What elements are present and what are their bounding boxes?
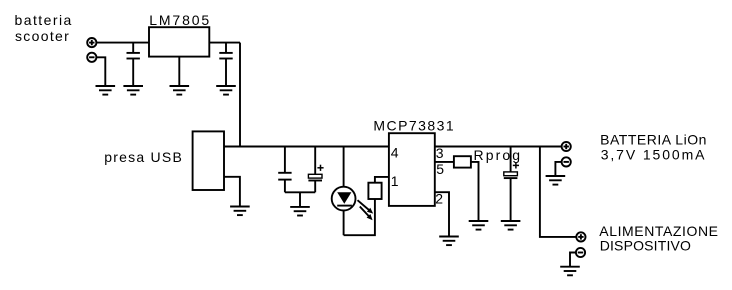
capacitor C4 electrolytic <box>308 147 323 193</box>
capacitor C3 <box>278 147 291 193</box>
wire MCP pin3 VBAT rail <box>435 146 562 148</box>
wire LED cathode to R1 <box>344 199 375 235</box>
wire caps to ground stem <box>299 192 301 207</box>
capacitor C1 input <box>127 43 140 86</box>
svg-text:presa USB: presa USB <box>104 149 182 165</box>
ground under Rprog <box>469 221 489 230</box>
ground under C2 <box>216 86 236 95</box>
ground under C5 <box>501 221 521 230</box>
wire batteria- to ground <box>96 57 105 86</box>
svg-text:MCP73831: MCP73831 <box>373 118 454 134</box>
svg-text:batteria: batteria <box>15 12 72 28</box>
svg-text:1: 1 <box>391 173 399 189</box>
svg-text:DISPOSITIVO: DISPOSITIVO <box>600 237 691 253</box>
terminal - ALIMENTAZIONE <box>576 248 585 257</box>
wire Rprog to ground <box>471 162 479 221</box>
LED emission arrow 1 <box>358 200 374 213</box>
svg-text:scooter: scooter <box>15 28 69 44</box>
svg-text:3,7V 1500mA: 3,7V 1500mA <box>601 146 705 162</box>
svg-text:BATTERIA LiOn: BATTERIA LiOn <box>600 132 706 148</box>
connector J1 presa USB body <box>193 131 224 190</box>
wire MCP pin5 to Rprog <box>435 161 454 163</box>
wire alimentazione - to ground <box>570 253 576 267</box>
ground under battery - <box>546 176 566 185</box>
svg-text:Rprog: Rprog <box>474 147 521 163</box>
capacitor C2 output <box>219 43 232 86</box>
wire 5V feed down to USB rail <box>239 43 241 147</box>
terminal + ALIMENTAZIONE <box>576 232 585 241</box>
regulator U1 LM7805 body <box>149 27 209 56</box>
ground under batteria - <box>96 86 116 95</box>
wire batteria+ to LM7805 input <box>96 42 149 44</box>
wire R1 to MCP pin1 STAT <box>375 177 389 183</box>
resistor R2 Rprog <box>454 156 471 167</box>
LED emission arrow 2 <box>360 207 373 221</box>
wire C3 C4 bottoms joined <box>285 191 315 193</box>
svg-text:5: 5 <box>436 161 444 177</box>
ground under C1 <box>123 86 143 95</box>
ground under alimentazione - <box>560 267 580 276</box>
ground under LM7805 <box>170 86 190 95</box>
wire LM7805 output <box>209 42 240 44</box>
terminal + batteria scooter <box>87 38 96 47</box>
terminal - batteria scooter <box>87 53 96 62</box>
terminal + BATTERIA LiOn <box>562 142 571 151</box>
svg-text:LM7805: LM7805 <box>149 12 209 28</box>
wire MCP pin2 VSS to ground <box>435 192 449 236</box>
wire battery - to ground <box>555 162 561 176</box>
capacitor C5 electrolytic battery <box>504 147 519 222</box>
ground under MCP pin2 <box>439 237 459 246</box>
wire 5V rail USB to MCP pin4 <box>224 146 389 148</box>
wire LM7805 GND pin to ground <box>178 57 180 86</box>
ground under USB <box>230 207 250 216</box>
wire battery rail down to device feed <box>540 147 576 237</box>
resistor R1 (LED series) <box>368 183 381 199</box>
svg-text:4: 4 <box>391 144 399 160</box>
ground under C3 C4 <box>290 207 310 216</box>
IC U2 MCP73831 body <box>389 133 435 206</box>
terminal - BATTERIA LiOn <box>562 157 571 166</box>
LED D1 <box>332 147 356 236</box>
wire USB ground pin <box>224 177 240 207</box>
